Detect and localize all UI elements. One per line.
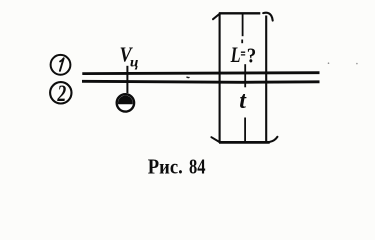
node label 2 (circled)	[50, 81, 71, 107]
scan specks right	[328, 62, 330, 64]
svg-text:L: L	[230, 44, 241, 68]
wire 1 (top horizontal line)	[82, 71, 319, 75]
bracket region: left vertical line	[219, 13, 221, 142]
svg-text:84: 84	[189, 156, 206, 179]
svg-text:ц: ц	[130, 55, 139, 70]
dashed centerline dash	[241, 40, 243, 44]
svg-text:?: ?	[247, 44, 256, 67]
dashed centerline segment (top)	[242, 15, 244, 37]
ball (bead on string)	[117, 94, 134, 111]
scan speck near wires	[187, 76, 190, 79]
bracket region: bottom bar	[219, 141, 270, 144]
bracket region: bottom-left serif	[211, 137, 219, 142]
svg-text:2: 2	[57, 81, 67, 107]
label L = ?	[230, 44, 256, 68]
dashed centerline segment (bottom)	[244, 118, 246, 143]
caption: Рис. 84	[148, 155, 206, 179]
bracket region: bottom-right serif	[270, 137, 278, 142]
wire (pendulum string)	[126, 66, 128, 93]
bracket region: top-right hook	[263, 13, 273, 21]
svg-text:Рис.: Рис.	[148, 155, 183, 178]
bracket region: top bar	[219, 12, 260, 14]
wire 2 (bottom horizontal line)	[82, 81, 320, 82]
bracket region: right vertical line	[265, 16, 267, 143]
bracket region: top-left serif	[213, 14, 220, 20]
dashed centerline segment crossing wires	[244, 64, 246, 87]
label V_ц (velocity)	[120, 43, 139, 70]
node label 1 (circled)	[51, 55, 71, 75]
